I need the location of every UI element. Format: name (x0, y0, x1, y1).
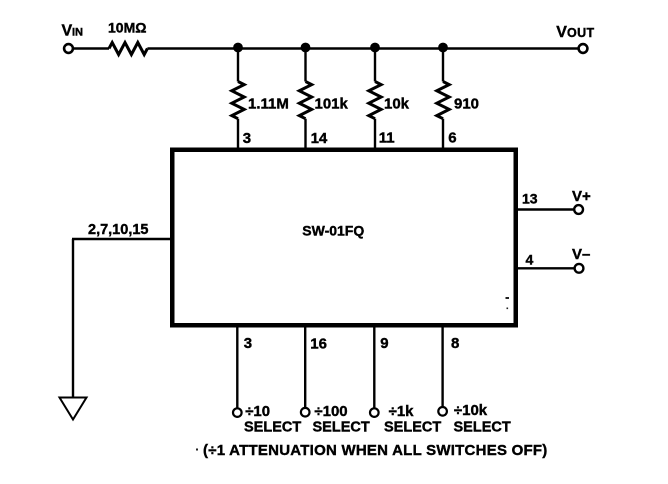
svg-text:3: 3 (243, 130, 251, 147)
svg-text:8: 8 (451, 335, 459, 352)
svg-text:÷1k: ÷1k (389, 403, 415, 420)
svg-text:V+: V+ (572, 188, 591, 205)
svg-text:10MΩ: 10MΩ (108, 20, 146, 36)
svg-text:IN: IN (72, 27, 83, 39)
svg-text:SELECT: SELECT (384, 420, 441, 436)
svg-text:16: 16 (310, 336, 327, 353)
svg-text:1.11M: 1.11M (248, 96, 289, 113)
svg-text:9: 9 (380, 335, 388, 352)
svg-text:14: 14 (311, 130, 328, 147)
svg-text:3: 3 (244, 335, 252, 352)
svg-text:(÷1 ATTENUATION WHEN ALL SWITC: (÷1 ATTENUATION WHEN ALL SWITCHES OFF) (203, 442, 548, 459)
svg-text:OUT: OUT (567, 26, 595, 40)
svg-text:V: V (62, 23, 73, 40)
svg-text:V: V (556, 24, 567, 41)
svg-text:÷10k: ÷10k (454, 402, 488, 419)
svg-text:V–: V– (572, 246, 590, 263)
svg-text:÷100: ÷100 (314, 403, 347, 420)
svg-text:13: 13 (522, 191, 538, 207)
svg-text:6: 6 (448, 130, 456, 147)
svg-text:2,7,10,15: 2,7,10,15 (88, 222, 148, 238)
svg-text:SELECT: SELECT (244, 420, 301, 436)
svg-text:÷10: ÷10 (245, 403, 270, 420)
svg-text:SELECT: SELECT (313, 420, 370, 436)
svg-text:10k: 10k (384, 96, 410, 113)
svg-text:SELECT: SELECT (454, 420, 511, 436)
svg-text:SW-01FQ: SW-01FQ (302, 223, 364, 239)
svg-text:11: 11 (379, 130, 395, 147)
svg-text:910: 910 (454, 96, 479, 113)
svg-text:101k: 101k (315, 96, 349, 113)
svg-text:4: 4 (526, 252, 534, 268)
